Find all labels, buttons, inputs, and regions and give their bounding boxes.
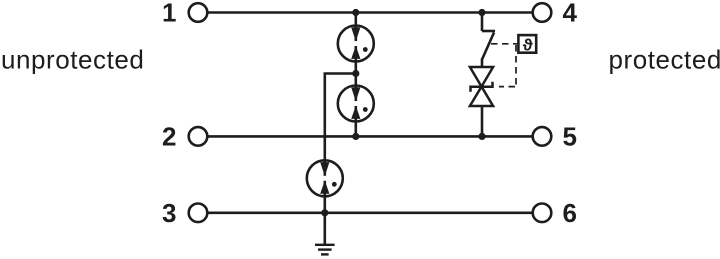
svg-text:protected: protected xyxy=(609,45,720,75)
svg-text:1: 1 xyxy=(162,0,176,28)
junction node on line 1 at GDT stack xyxy=(352,9,359,16)
wire vertical GDT stack line1 to gap of F1 xyxy=(354,13,357,42)
temperature monitor box xyxy=(518,35,536,53)
wire branch from midpoint going left xyxy=(325,74,356,176)
thermal disconnect switch blade xyxy=(482,33,494,60)
thermal disconnect switch tick xyxy=(482,30,495,33)
junction node at GDT midpoint xyxy=(352,70,359,77)
junction node on line 1 at right branch xyxy=(478,9,485,16)
wire blade to varistor xyxy=(481,59,484,68)
wire varistor to line 2 xyxy=(481,106,484,136)
svg-text:4: 4 xyxy=(563,0,578,28)
terminal 5 circle xyxy=(533,127,552,146)
junction node on line 2 at GDT stack xyxy=(352,133,359,140)
ground symbol xyxy=(315,245,335,255)
wire line 1 (terminal 1 to terminal 4) xyxy=(207,11,532,14)
wire right branch: line1 to disconnect xyxy=(481,13,484,32)
wire line 2 (terminal 2 to terminal 5) xyxy=(207,135,532,138)
thermal linkage dashed wire xyxy=(491,44,518,87)
svg-text:unprotected: unprotected xyxy=(1,45,144,75)
suppressor diode / varistor (bidirectional) xyxy=(470,67,493,106)
wire from F2 gap to line 2 xyxy=(354,106,357,136)
terminal 2 circle xyxy=(189,127,208,146)
gas discharge tube F2 (middle) xyxy=(338,86,374,122)
terminal 1 circle xyxy=(189,3,208,22)
terminal 3 circle xyxy=(189,204,208,223)
gas discharge tube F1 (top) xyxy=(338,26,374,62)
gas discharge tube F3 (bottom) xyxy=(307,160,343,196)
wire line 3 (terminal 3 to terminal 6) xyxy=(207,212,532,215)
wire ground stem xyxy=(323,213,326,244)
svg-text:ϑ: ϑ xyxy=(523,36,533,55)
junction node on line 3 at ground xyxy=(321,209,328,216)
wire F3 to line 3 xyxy=(323,181,326,213)
wire between F1 gap and F2 gap xyxy=(354,46,357,101)
svg-text:2: 2 xyxy=(162,121,176,151)
svg-text:6: 6 xyxy=(563,198,577,228)
terminal 4 circle xyxy=(533,3,552,22)
terminal 6 circle xyxy=(533,204,552,223)
svg-text:5: 5 xyxy=(563,121,577,151)
junction node on line 2 at right branch xyxy=(478,133,485,140)
svg-text:3: 3 xyxy=(162,198,176,228)
